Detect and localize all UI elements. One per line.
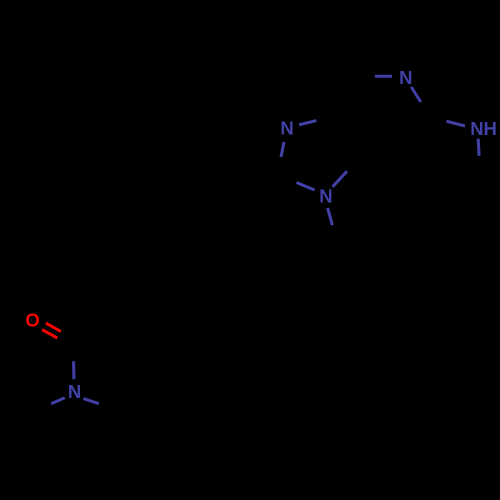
double bond C=O lower half line <box>42 330 57 339</box>
svg-text:NH: NH <box>470 118 497 139</box>
bond N(amide)-C ring half (down-left) <box>51 398 65 404</box>
bond N(py)-C7a half (down-right diagonal) <box>411 87 421 102</box>
bond N3-C2 half (steep down) <box>281 142 284 157</box>
bond NH-C7a half (shallow left diagonal) <box>446 121 465 126</box>
bond N(amide)-C ring half (down-right) <box>84 399 99 404</box>
double bond C=O upper half line <box>46 323 61 331</box>
bond NH-C3 half (vertical down) <box>477 139 481 156</box>
svg-text:N: N <box>399 67 412 88</box>
svg-text:N: N <box>68 381 81 402</box>
svg-text:N: N <box>319 186 332 207</box>
bond N1-CH2 half (substituent, steep down) <box>328 208 333 225</box>
bond N3-C3a half (shallow up-right) <box>299 121 316 125</box>
bond N(py)-C5 half (horizontal left) <box>375 75 392 78</box>
svg-text:O: O <box>25 310 39 331</box>
bond N1-C2 half (shallow up-left) <box>297 183 315 191</box>
svg-text:N: N <box>280 118 293 139</box>
bond N(amide)-C(=O) half (vertical up) <box>72 361 75 379</box>
bond N1-C7b half (steep up-right) <box>333 171 347 187</box>
